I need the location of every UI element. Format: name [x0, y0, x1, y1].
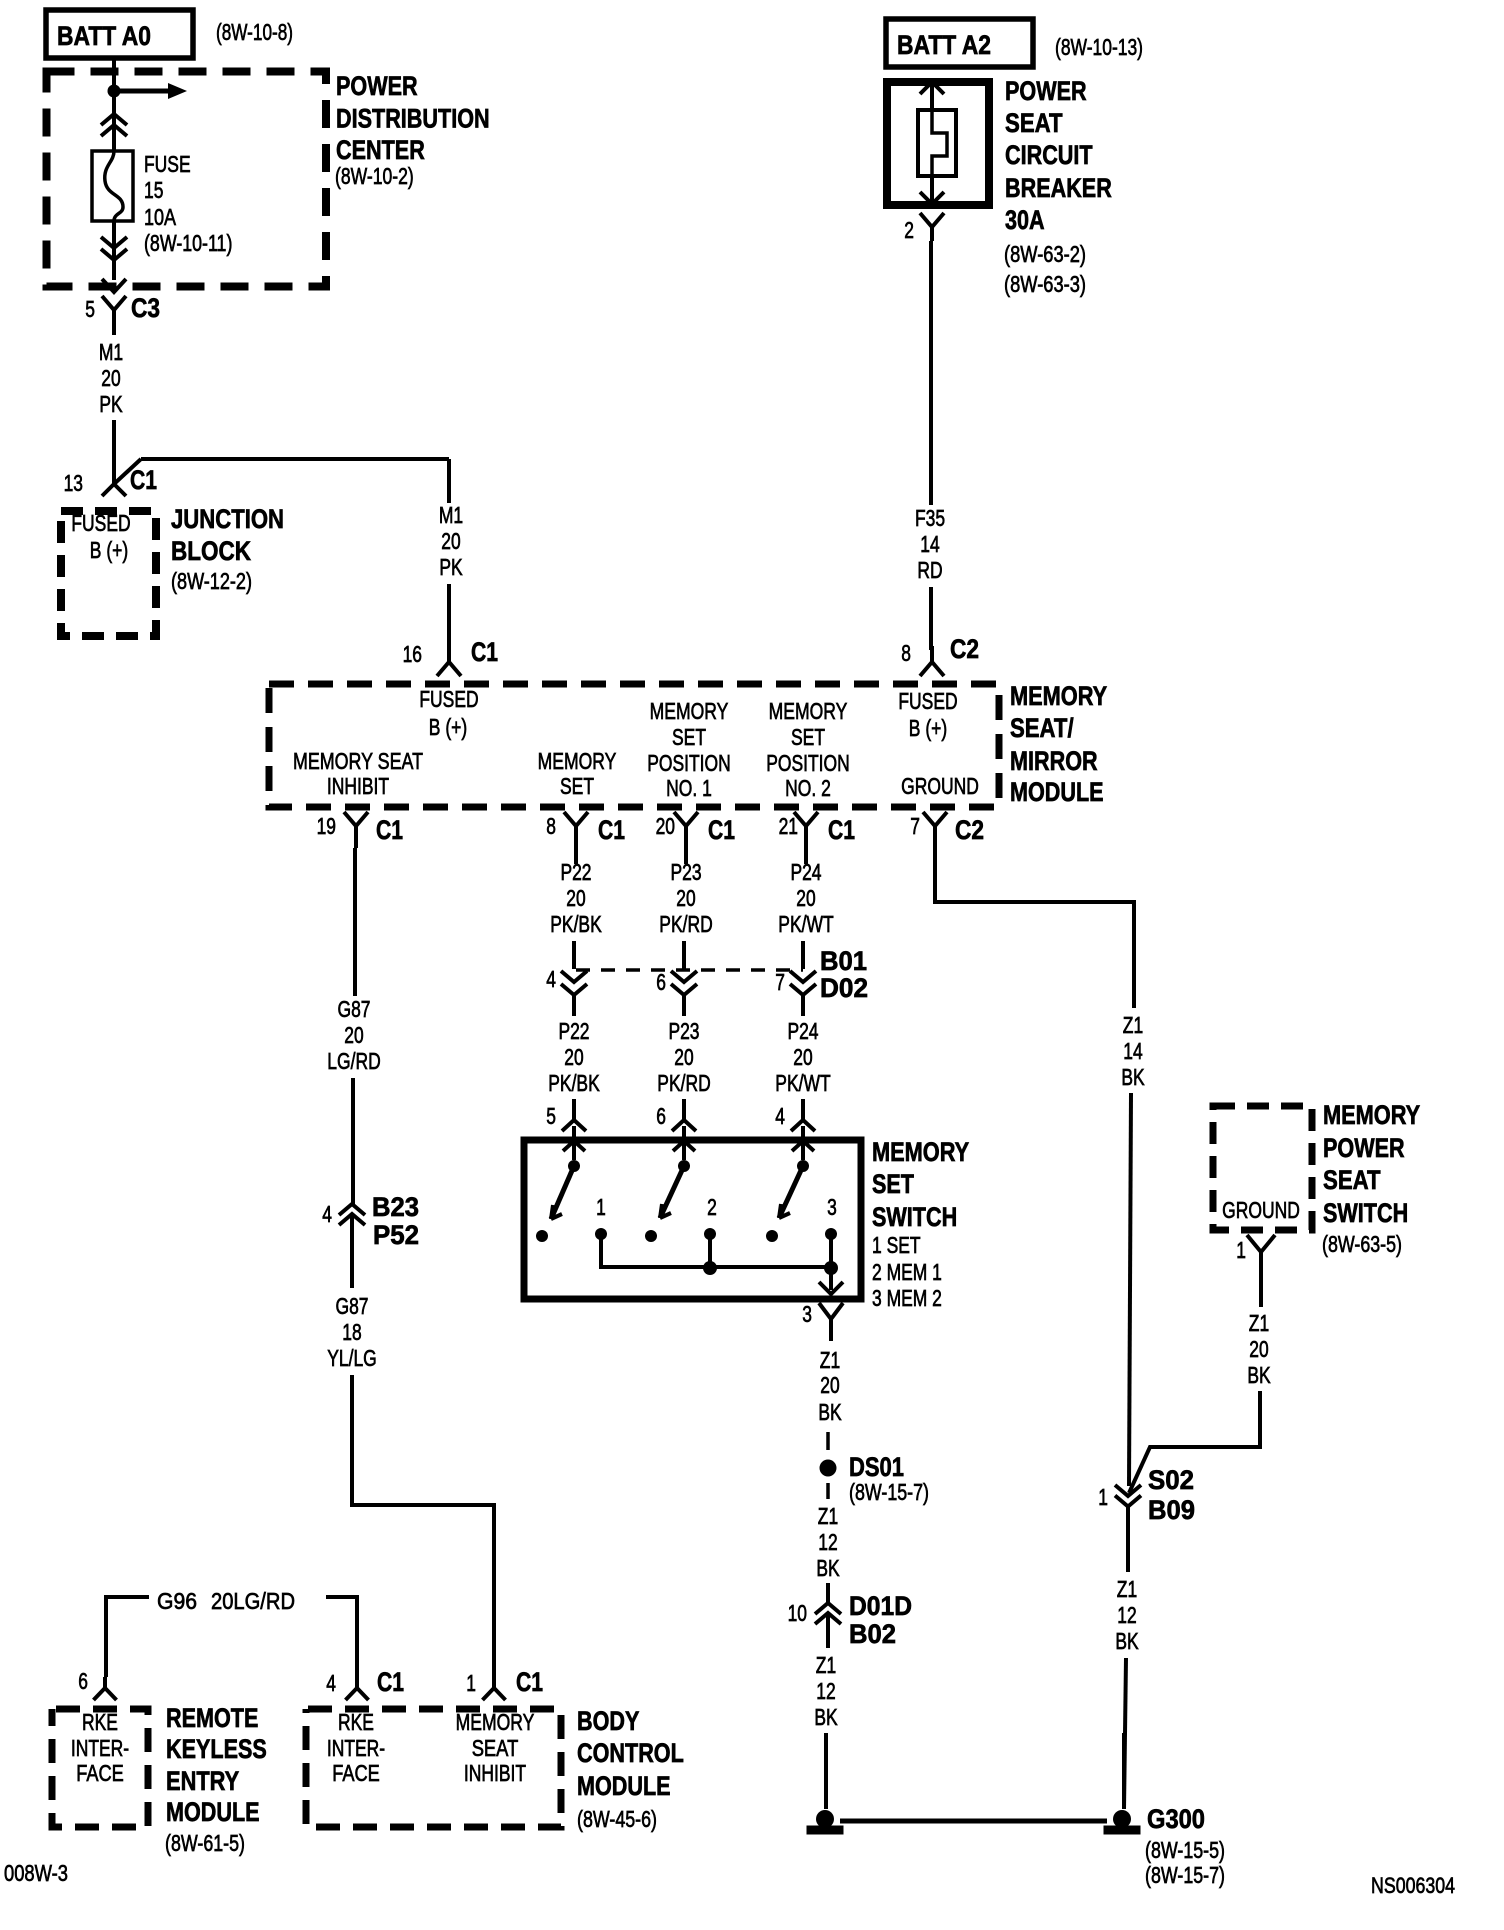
- svg-text:008W-3: 008W-3: [4, 1860, 68, 1886]
- svg-text:4: 4: [546, 966, 556, 992]
- switch terminal 2 dot: [704, 1228, 716, 1240]
- svg-text:PK/BK: PK/BK: [550, 911, 602, 937]
- svg-text:JUNCTION: JUNCTION: [171, 504, 284, 534]
- svg-text:B (+): B (+): [909, 715, 947, 741]
- connector C1 cavity 4 of BCM: [346, 1682, 369, 1700]
- body control module dashed box: [306, 1709, 561, 1827]
- svg-text:GROUND: GROUND: [901, 773, 979, 799]
- svg-text:GROUND: GROUND: [1222, 1197, 1300, 1223]
- svg-text:20: 20: [796, 885, 815, 911]
- svg-text:ENTRY: ENTRY: [166, 1766, 239, 1796]
- svg-text:13: 13: [64, 470, 83, 496]
- svg-text:FACE: FACE: [332, 1760, 380, 1786]
- svg-text:BK: BK: [814, 1704, 838, 1730]
- svg-text:BATT A2: BATT A2: [897, 30, 991, 60]
- svg-text:(8W-10-8): (8W-10-8): [216, 19, 293, 45]
- svg-text:20: 20: [674, 1044, 693, 1070]
- svg-text:B23: B23: [372, 1192, 419, 1222]
- svg-text:20: 20: [564, 1044, 583, 1070]
- bus junction dot at terminal 3: [824, 1261, 838, 1275]
- svg-text:PK: PK: [439, 554, 463, 580]
- svg-text:2: 2: [904, 217, 914, 243]
- wire F35 upper: [929, 241, 933, 505]
- svg-text:MEMORY: MEMORY: [650, 698, 729, 724]
- svg-text:P52: P52: [373, 1220, 419, 1250]
- ground symbol left: [816, 1810, 834, 1828]
- svg-text:POWER: POWER: [1323, 1133, 1405, 1163]
- switch pole 3 entry arrow: [792, 1141, 814, 1151]
- svg-text:PK/WT: PK/WT: [778, 911, 833, 937]
- svg-text:PK/RD: PK/RD: [657, 1070, 710, 1096]
- svg-text:MODULE: MODULE: [166, 1797, 260, 1827]
- svg-text:G87: G87: [338, 996, 371, 1022]
- connector C1 cavity 1 of BCM: [483, 1682, 506, 1700]
- wire below fuse: [112, 221, 116, 280]
- svg-text:NS006304: NS006304: [1371, 1873, 1455, 1898]
- wire P23 to B01: [682, 941, 686, 969]
- svg-text:F35: F35: [915, 505, 945, 531]
- connector cavity 4 of memory set switch: [791, 1100, 815, 1131]
- svg-text:C1: C1: [708, 815, 735, 845]
- svg-text:BK: BK: [818, 1399, 842, 1425]
- wire P22 upper: [574, 848, 578, 864]
- wire to ground right: [1124, 1658, 1126, 1809]
- svg-text:INTER-: INTER-: [327, 1735, 385, 1761]
- connector cavity 2 of circuit breaker: [920, 213, 944, 241]
- wire P23 upper: [684, 848, 688, 864]
- wire Z1 14 BK lower: [1129, 1093, 1131, 1486]
- svg-text:20: 20: [656, 813, 675, 839]
- wire into G300: [1122, 1733, 1126, 1809]
- wire P24 below B01: [801, 995, 805, 1016]
- wire into circuit breaker: [930, 82, 934, 110]
- svg-text:C1: C1: [516, 1667, 543, 1697]
- svg-text:S02: S02: [1148, 1465, 1194, 1495]
- svg-text:4: 4: [326, 1670, 336, 1696]
- switch terminal 1 dot: [595, 1228, 607, 1240]
- svg-text:(8W-61-5): (8W-61-5): [165, 1830, 245, 1856]
- switch pole 2 common dot: [678, 1160, 690, 1172]
- switch terminal 3 dot: [825, 1228, 837, 1240]
- svg-text:P23: P23: [668, 1018, 699, 1044]
- svg-text:MEMORY: MEMORY: [1010, 681, 1107, 711]
- svg-text:MODULE: MODULE: [577, 1771, 671, 1801]
- svg-text:REMOTE: REMOTE: [166, 1703, 258, 1733]
- wire from BATT A0 into PDC: [112, 58, 116, 97]
- svg-text:SET: SET: [560, 773, 594, 799]
- svg-text:POWER: POWER: [1005, 76, 1087, 106]
- svg-text:PK/RD: PK/RD: [659, 911, 712, 937]
- switch pole 1 common dot: [568, 1160, 580, 1172]
- svg-text:SEAT: SEAT: [1005, 108, 1063, 138]
- svg-text:1: 1: [1098, 1484, 1108, 1510]
- inline connector B23/P52: [339, 1204, 365, 1215]
- svg-text:(8W-15-7): (8W-15-7): [1145, 1862, 1225, 1888]
- svg-text:14: 14: [920, 531, 940, 557]
- svg-text:BK: BK: [1121, 1064, 1145, 1090]
- wire P24 to B01: [801, 941, 805, 969]
- svg-text:30A: 30A: [1005, 205, 1045, 235]
- svg-text:8: 8: [901, 640, 911, 666]
- connector cavity 5 of memory set switch: [562, 1100, 586, 1131]
- wire from cavity 7 to corner: [935, 848, 1134, 1008]
- svg-text:SET: SET: [672, 724, 706, 750]
- wire G96 right segment: [326, 1597, 357, 1682]
- svg-text:1: 1: [466, 1670, 476, 1696]
- wire below S02: [1126, 1506, 1130, 1572]
- bus exit wire: [829, 1268, 833, 1290]
- connector C1 cavity 8: [564, 812, 588, 848]
- svg-text:6: 6: [656, 1103, 666, 1129]
- svg-text:20: 20: [344, 1022, 363, 1048]
- svg-text:5: 5: [546, 1103, 556, 1129]
- svg-text:C3: C3: [131, 293, 160, 323]
- svg-text:(8W-10-2): (8W-10-2): [335, 163, 414, 189]
- connector C1 cavity 13 of junction block: [102, 459, 141, 496]
- memory power seat switch dashed box: [1213, 1106, 1312, 1230]
- wire M1 to junction block: [112, 420, 116, 484]
- svg-text:18: 18: [342, 1319, 361, 1345]
- svg-text:(8W-10-11): (8W-10-11): [144, 230, 232, 256]
- svg-text:14: 14: [1123, 1038, 1143, 1064]
- wire G87 upper: [353, 848, 357, 996]
- wire P22 below B01: [572, 995, 576, 1016]
- arrowhead at switch exit: [819, 1282, 843, 1294]
- battery feed box BATT A0: [46, 10, 193, 58]
- svg-text:19: 19: [317, 813, 336, 839]
- ground bus wire: [840, 1819, 1107, 1824]
- svg-text:Z1: Z1: [820, 1347, 840, 1373]
- svg-text:MEMORY: MEMORY: [1323, 1100, 1420, 1130]
- svg-text:C1: C1: [376, 815, 403, 845]
- svg-text:G96: G96: [157, 1588, 197, 1614]
- svg-text:3: 3: [802, 1301, 812, 1327]
- svg-text:MEMORY SEAT: MEMORY SEAT: [293, 748, 423, 774]
- svg-text:SET: SET: [791, 724, 825, 750]
- wire F35 lower: [929, 587, 933, 650]
- svg-text:RD: RD: [917, 557, 942, 583]
- fuse F15 body: [92, 151, 133, 221]
- switch 1 throw contact dot: [536, 1230, 548, 1242]
- svg-text:PK: PK: [99, 391, 123, 417]
- svg-text:Z1: Z1: [1117, 1576, 1137, 1602]
- inline connector B01/D02 pin 4: [561, 971, 587, 982]
- switch 2 throw contact dot: [645, 1230, 657, 1242]
- svg-text:12: 12: [1117, 1602, 1136, 1628]
- svg-text:NO. 1: NO. 1: [666, 775, 712, 801]
- svg-text:C2: C2: [950, 634, 979, 664]
- svg-text:P22: P22: [558, 1018, 589, 1044]
- memory set switch box: [524, 1140, 861, 1299]
- inline connector B01/D02 pin 6: [671, 971, 697, 982]
- svg-text:CENTER: CENTER: [336, 135, 425, 165]
- wire P22 to B01: [572, 941, 576, 969]
- junction dot in PDC: [108, 85, 121, 98]
- wire below cavity 1: [1259, 1278, 1263, 1307]
- wire junction dot to fuse: [112, 97, 116, 151]
- svg-text:MIRROR: MIRROR: [1010, 746, 1098, 776]
- svg-text:INHIBIT: INHIBIT: [464, 1760, 526, 1786]
- power distribution center dashed box: [47, 72, 327, 287]
- wire power seat switch ground to S02: [1129, 1391, 1260, 1493]
- svg-text:20: 20: [1249, 1336, 1268, 1362]
- svg-text:B (+): B (+): [429, 714, 467, 740]
- svg-text:MEMORY: MEMORY: [769, 698, 848, 724]
- svg-text:(8W-15-5): (8W-15-5): [1145, 1837, 1225, 1863]
- svg-text:BODY: BODY: [577, 1706, 639, 1736]
- svg-text:2 MEM 1: 2 MEM 1: [872, 1259, 942, 1285]
- svg-text:B09: B09: [1148, 1495, 1195, 1525]
- svg-text:P22: P22: [560, 859, 591, 885]
- svg-text:B (+): B (+): [90, 537, 128, 563]
- battery feed box BATT A2: [886, 19, 1033, 67]
- connector cavity 6 of RKE module: [94, 1677, 117, 1700]
- svg-text:10A: 10A: [144, 204, 177, 230]
- svg-text:FUSED: FUSED: [71, 510, 130, 536]
- svg-text:C1: C1: [598, 815, 625, 845]
- memory seat/mirror module dashed box: [269, 684, 999, 807]
- svg-text:BREAKER: BREAKER: [1005, 173, 1112, 203]
- svg-text:MEMORY: MEMORY: [456, 1709, 535, 1735]
- inline connector B01/D02 pin 7: [790, 971, 816, 982]
- svg-text:SEAT: SEAT: [472, 1735, 519, 1761]
- svg-text:G300: G300: [1147, 1804, 1205, 1834]
- svg-text:20: 20: [101, 365, 120, 391]
- svg-text:BLOCK: BLOCK: [171, 536, 251, 566]
- svg-text:Z1: Z1: [816, 1652, 836, 1678]
- svg-text:1: 1: [596, 1194, 606, 1220]
- switch 3 throw contact dot: [766, 1230, 778, 1242]
- connector C1 cavity 16: [437, 646, 461, 676]
- connector C3 cavity 5: [102, 296, 126, 335]
- svg-text:FUSED: FUSED: [419, 686, 478, 712]
- svg-text:12: 12: [816, 1678, 835, 1704]
- wire G96 left segment: [106, 1597, 149, 1677]
- svg-text:NO. 2: NO. 2: [785, 775, 831, 801]
- svg-text:FUSED: FUSED: [898, 688, 957, 714]
- svg-text:C2: C2: [955, 815, 984, 845]
- svg-text:C1: C1: [377, 1667, 404, 1697]
- wire below B23: [350, 1214, 354, 1288]
- svg-text:P24: P24: [790, 859, 821, 885]
- wire G87 to body control module: [352, 1375, 494, 1682]
- svg-text:Z1: Z1: [1123, 1012, 1143, 1038]
- svg-text:D02: D02: [820, 973, 868, 1003]
- svg-text:(8W-12-2): (8W-12-2): [171, 568, 252, 594]
- connector cavity 3 below switch: [819, 1303, 843, 1341]
- svg-text:P24: P24: [787, 1018, 818, 1044]
- svg-text:INHIBIT: INHIBIT: [327, 773, 389, 799]
- svg-text:6: 6: [656, 969, 666, 995]
- svg-text:BK: BK: [816, 1555, 840, 1581]
- arrowhead at PDC exit: [102, 279, 126, 292]
- svg-text:16: 16: [403, 641, 422, 667]
- svg-text:BATT A0: BATT A0: [57, 21, 151, 51]
- svg-text:(8W-10-13): (8W-10-13): [1055, 34, 1143, 60]
- connector cavity 1 of power seat switch: [1247, 1235, 1275, 1278]
- inline connector S02/B09: [1115, 1485, 1141, 1496]
- svg-text:C1: C1: [130, 465, 157, 495]
- circuit breaker step element: [932, 110, 947, 176]
- svg-text:DISTRIBUTION: DISTRIBUTION: [336, 104, 490, 134]
- svg-text:21: 21: [779, 813, 798, 839]
- svg-text:INTER-: INTER-: [71, 1735, 129, 1761]
- svg-text:20LG/RD: 20LG/RD: [211, 1588, 295, 1614]
- wire junction block to module (horizontal): [141, 457, 449, 461]
- svg-text:D01D: D01D: [849, 1591, 912, 1621]
- svg-text:SWITCH: SWITCH: [1323, 1198, 1408, 1228]
- svg-text:2: 2: [707, 1194, 717, 1220]
- wire P22 to switch: [572, 1099, 576, 1104]
- svg-text:PK/WT: PK/WT: [775, 1070, 830, 1096]
- svg-text:P23: P23: [670, 859, 701, 885]
- wire to D01D: [826, 1583, 830, 1603]
- connector C2 cavity 8: [920, 646, 944, 676]
- connector C2 cavity 7: [923, 812, 947, 848]
- svg-text:PK/BK: PK/BK: [548, 1070, 600, 1096]
- inline connector chevrons above fuse: [101, 114, 127, 125]
- svg-text:12: 12: [818, 1529, 837, 1555]
- svg-text:FUSE: FUSE: [144, 151, 191, 177]
- svg-text:POSITION: POSITION: [647, 750, 731, 776]
- arrow to other circuits: [120, 89, 168, 94]
- wire P24 to switch: [801, 1099, 805, 1104]
- wire below breaker element: [930, 176, 934, 203]
- switch common bus: [601, 1234, 831, 1267]
- svg-text:4: 4: [775, 1103, 785, 1129]
- svg-text:MEMORY: MEMORY: [538, 748, 617, 774]
- svg-text:1: 1: [1236, 1237, 1246, 1263]
- svg-text:(8W-15-7): (8W-15-7): [849, 1479, 929, 1505]
- svg-text:SET: SET: [872, 1169, 914, 1199]
- svg-text:DS01: DS01: [849, 1452, 904, 1482]
- svg-text:(8W-45-6): (8W-45-6): [577, 1806, 657, 1832]
- wire P23 to switch: [682, 1099, 686, 1104]
- inline connector B01/D02 dashed gang line: [576, 968, 803, 972]
- bus junction dot at terminal 2: [703, 1261, 717, 1275]
- svg-text:Z1: Z1: [1249, 1310, 1269, 1336]
- circuit breaker element box: [918, 110, 956, 176]
- junction block dashed box: [61, 511, 156, 636]
- splice DS01: [820, 1460, 837, 1477]
- wire P23 below B01: [682, 995, 686, 1016]
- svg-text:FACE: FACE: [76, 1760, 124, 1786]
- svg-text:BK: BK: [1247, 1362, 1271, 1388]
- svg-text:SWITCH: SWITCH: [872, 1202, 957, 1232]
- connector C1 cavity 19: [344, 812, 368, 848]
- svg-text:M1: M1: [439, 502, 463, 528]
- svg-text:3: 3: [827, 1194, 837, 1220]
- wire below D01D: [826, 1613, 830, 1648]
- svg-text:15: 15: [144, 177, 163, 203]
- wire M1 down to 16 C1: [447, 459, 451, 503]
- svg-text:KEYLESS: KEYLESS: [166, 1734, 267, 1764]
- svg-text:SEAT/: SEAT/: [1010, 713, 1074, 743]
- arrowhead up into breaker: [920, 82, 944, 94]
- connector C1 cavity 21: [794, 812, 818, 848]
- connector C1 cavity 20: [674, 812, 698, 848]
- svg-text:(8W-63-2): (8W-63-2): [1004, 241, 1086, 267]
- svg-text:CONTROL: CONTROL: [577, 1738, 684, 1768]
- svg-text:20: 20: [676, 885, 695, 911]
- remote keyless entry module dashed box: [52, 1709, 148, 1827]
- svg-text:20: 20: [566, 885, 585, 911]
- svg-text:6: 6: [78, 1668, 88, 1694]
- wire G87 lower: [351, 1078, 355, 1204]
- switch pole 3 common dot: [797, 1160, 809, 1172]
- wire stub below DS01: [826, 1483, 830, 1499]
- svg-text:1 SET: 1 SET: [872, 1232, 921, 1258]
- wire to ground G300 left: [824, 1733, 828, 1809]
- svg-text:BK: BK: [1115, 1628, 1139, 1654]
- svg-text:B02: B02: [849, 1619, 896, 1649]
- svg-text:5: 5: [85, 296, 95, 322]
- svg-text:MEMORY: MEMORY: [872, 1137, 969, 1167]
- switch 2 wiper arm: [660, 1166, 684, 1218]
- svg-text:C1: C1: [828, 815, 855, 845]
- svg-text:YL/LG: YL/LG: [327, 1345, 377, 1371]
- arrowhead down out of breaker: [920, 192, 944, 204]
- svg-text:Z1: Z1: [818, 1503, 838, 1529]
- svg-text:3 MEM 2: 3 MEM 2: [872, 1285, 942, 1311]
- wire P24 upper: [804, 848, 808, 864]
- svg-text:SEAT: SEAT: [1323, 1165, 1381, 1195]
- wire stub to DS01: [826, 1432, 830, 1450]
- svg-text:POSITION: POSITION: [766, 750, 850, 776]
- svg-text:20: 20: [793, 1044, 812, 1070]
- svg-text:G87: G87: [336, 1293, 369, 1319]
- svg-text:MODULE: MODULE: [1010, 777, 1104, 807]
- connector cavity 6 of memory set switch: [672, 1100, 696, 1131]
- switch pole 1 entry arrow: [563, 1141, 585, 1151]
- svg-text:7: 7: [910, 813, 920, 839]
- svg-text:(8W-63-5): (8W-63-5): [1322, 1231, 1402, 1257]
- svg-text:C1: C1: [471, 637, 498, 667]
- svg-text:(8W-63-3): (8W-63-3): [1004, 271, 1086, 297]
- inline connector chevrons below fuse: [101, 237, 127, 248]
- svg-text:LG/RD: LG/RD: [327, 1048, 380, 1074]
- svg-text:20: 20: [820, 1372, 839, 1398]
- svg-text:4: 4: [322, 1201, 332, 1227]
- switch pole 2 entry arrow: [673, 1141, 695, 1151]
- switch 3 wiper arm: [779, 1166, 803, 1218]
- ground symbol G300: [1113, 1810, 1131, 1828]
- svg-text:20: 20: [441, 528, 460, 554]
- circuit breaker box: [887, 82, 989, 205]
- svg-text:M1: M1: [99, 339, 123, 365]
- svg-text:8: 8: [546, 813, 556, 839]
- switch 1 wiper arm: [551, 1166, 574, 1219]
- svg-text:RKE: RKE: [338, 1709, 374, 1735]
- svg-text:RKE: RKE: [82, 1709, 118, 1735]
- svg-text:CIRCUIT: CIRCUIT: [1005, 140, 1093, 170]
- inline connector D01D/B02: [815, 1603, 841, 1614]
- svg-text:B01: B01: [820, 946, 867, 976]
- svg-text:7: 7: [775, 969, 785, 995]
- svg-text:10: 10: [788, 1600, 807, 1626]
- svg-text:POWER: POWER: [336, 71, 418, 101]
